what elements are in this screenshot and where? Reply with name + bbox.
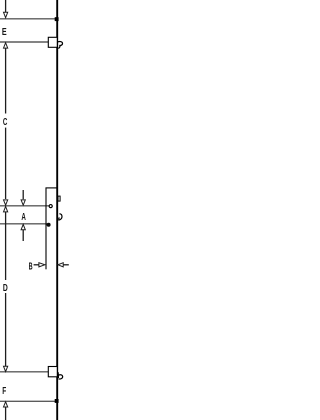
wire: dimension C stem lower: [5, 128, 7, 199]
arrow: B arrowhead pointing right: [39, 263, 45, 267]
arrow: A bottom arrowhead pointing up: [21, 224, 25, 229]
spindle hole circle: [49, 205, 52, 208]
arrow: E outer arrowhead pointing down: [4, 12, 8, 17]
bottom latch case rectangle: [48, 367, 57, 377]
wire: main vertical faceplate line: [56, 0, 58, 420]
wire: dimension A upper stem: [22, 190, 24, 199]
wire: F bottom boundary line: [0, 400, 57, 402]
arrow: A top arrowhead pointing down: [21, 200, 25, 205]
wire: dimension B dash after label: [34, 264, 39, 266]
top keeper square on faceplate: [55, 17, 59, 21]
label F: [2, 386, 6, 397]
wire: dimension D stem upper: [5, 212, 7, 280]
bottom keeper square on faceplate: [55, 399, 59, 403]
gearbox hook bolt: [59, 214, 62, 220]
label A: [21, 212, 26, 223]
wire: A top boundary line (C/D datum): [0, 205, 49, 207]
wire: F top boundary line: [0, 371, 48, 373]
svg-text:F: F: [2, 386, 6, 397]
wire: dimension A lower stem: [22, 230, 24, 242]
wire: A bottom boundary line: [0, 223, 47, 225]
gearbox case left edge: [45, 188, 47, 270]
svg-text:C: C: [3, 117, 8, 128]
top latch hook bolt: [58, 42, 63, 49]
label C: [3, 117, 8, 128]
arrow: B arrowhead pointing left: [58, 263, 63, 267]
gearbox case top edge: [46, 187, 58, 189]
top latch case rectangle: [48, 37, 57, 47]
cylinder dot (filled): [47, 223, 51, 227]
wire: dimension B right stem: [63, 264, 69, 266]
wire: top boundary line (E top): [0, 18, 57, 20]
arrow: C bottom arrowhead pointing down: [4, 200, 8, 205]
arrow: D bottom arrowhead pointing down: [4, 366, 8, 371]
label E: [2, 27, 7, 38]
wire: dimension C stem upper: [5, 48, 7, 114]
label D: [3, 283, 8, 294]
wire: dimension D stem lower: [5, 293, 7, 367]
bottom latch hook bolt: [58, 372, 63, 379]
label B: [29, 261, 33, 272]
svg-text:A: A: [21, 212, 26, 223]
wire: dimension F outer stem (bottom): [5, 407, 7, 420]
arrow: C top arrowhead pointing up: [4, 43, 8, 48]
wire: dimension E outer stem (top): [5, 0, 7, 13]
arrow: D top arrowhead pointing up: [4, 207, 8, 212]
latchbolt tab right of faceplate: [58, 196, 60, 201]
svg-text:B: B: [29, 261, 33, 272]
arrow: F outer arrowhead pointing up: [4, 402, 8, 407]
svg-text:D: D: [3, 283, 8, 294]
wire: E bottom boundary line: [0, 41, 48, 43]
svg-text:E: E: [2, 27, 7, 38]
